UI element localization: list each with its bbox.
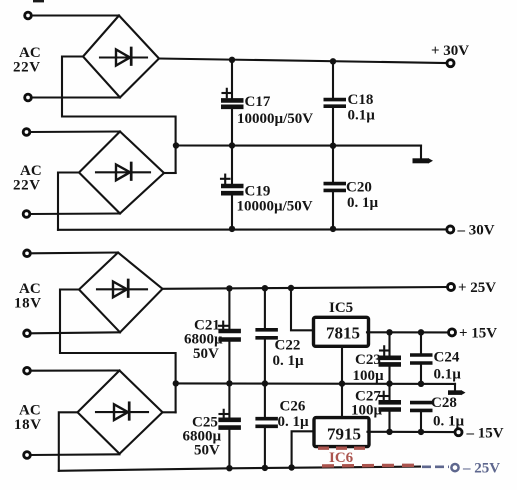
wire B3 minus: left vertex down to junction column xyxy=(60,290,176,413)
junction C18/C20 mid xyxy=(330,143,336,149)
terminal AC2 top xyxy=(23,129,30,136)
terminal +30V xyxy=(447,60,454,67)
svg-text:0. 1µ: 0. 1µ xyxy=(278,414,310,430)
label C17 value xyxy=(237,94,313,127)
label AC 18V (upper winding) xyxy=(14,281,42,312)
terminal -30V xyxy=(447,226,454,233)
terminal AC1 bottom xyxy=(25,94,32,101)
label C24 value xyxy=(434,350,462,383)
junction C19 bottom xyxy=(229,226,235,232)
wire -15V output xyxy=(368,431,455,433)
terminal AC4 bottom xyxy=(24,452,31,459)
wire 0V mid rail (bottom section) xyxy=(176,382,455,385)
diode inside B3 xyxy=(97,280,147,297)
svg-text:0. 1µ: 0. 1µ xyxy=(273,353,305,369)
label C28 value xyxy=(431,395,465,430)
junction 7915 input tap xyxy=(288,464,294,470)
polarity + of C23 xyxy=(380,346,389,354)
blue-gray wire segment to -25V terminal xyxy=(422,465,449,468)
capacitor C25 xyxy=(218,383,241,468)
junction C23 top xyxy=(386,329,392,335)
wire AC4-top to bridge B4 xyxy=(31,369,120,371)
capacitor C26 xyxy=(255,384,278,468)
label C19 value xyxy=(237,184,313,215)
terminal -15V xyxy=(455,429,462,436)
junction IC5 ground xyxy=(339,380,345,386)
capacitor C21 xyxy=(218,288,241,383)
ground (top section) xyxy=(413,146,434,164)
label AC 22V (lower winding) xyxy=(13,163,42,194)
diode inside B2 xyxy=(96,163,150,180)
ground (bottom section) xyxy=(448,384,466,395)
label C25 value xyxy=(183,415,222,459)
node 0V junction (bottom section) xyxy=(173,380,179,386)
scan speck top edge xyxy=(33,0,44,2)
diode inside B1 xyxy=(100,48,147,66)
polarity + of C27 xyxy=(380,392,389,400)
bridge rectifier B3 diamond xyxy=(79,253,163,333)
junction C22 top xyxy=(262,285,268,291)
bridge rectifier B2 diamond xyxy=(79,132,164,214)
svg-text:+ 15V: + 15V xyxy=(459,326,497,342)
svg-text:C24: C24 xyxy=(434,350,460,366)
capacitor C23 xyxy=(379,332,402,383)
svg-text:0.1µ: 0.1µ xyxy=(434,367,462,383)
label AC 18V (lower winding) xyxy=(14,403,42,434)
wire B2 plus to junction column xyxy=(164,172,176,174)
wire B2 minus: left vertex down to -30V rail xyxy=(58,173,79,230)
terminal AC3 bottom xyxy=(24,330,31,337)
label C21 value xyxy=(184,318,223,363)
svg-text:50V: 50V xyxy=(194,443,220,459)
polarity + of C21 xyxy=(219,322,228,330)
wire 7915 input from -25V rail xyxy=(292,431,313,467)
junction C17/C19 mid xyxy=(229,142,235,148)
op-amp IC5 box xyxy=(314,317,369,346)
svg-text:0.1µ: 0.1µ xyxy=(348,108,376,124)
wire IC5 input from +25V rail xyxy=(291,288,312,330)
wire AC3-bottom to bridge B3 xyxy=(31,332,121,333)
diode inside B4 xyxy=(96,403,148,420)
svg-text:18V: 18V xyxy=(14,296,42,312)
wire AC2-bottom to bridge B2 xyxy=(30,212,120,215)
wire B1 minus: left vertex down to junction column xyxy=(62,57,176,174)
capacitor C28 xyxy=(410,403,433,432)
junction C25 bottom xyxy=(226,465,232,471)
wire AC1-top to bridge B1 xyxy=(32,14,120,16)
label C18 value xyxy=(348,92,376,124)
junction C22 bottom xyxy=(262,380,268,386)
op-amp IC6 box xyxy=(314,418,369,447)
terminal +15V xyxy=(449,329,456,336)
junction C27 bottom xyxy=(386,429,392,435)
label C27 value xyxy=(351,389,383,419)
polarity + of C25 xyxy=(220,410,229,418)
wire B4 plus to junction column xyxy=(163,411,176,413)
wire IC5 ground pin xyxy=(341,347,343,384)
svg-text:0. 1µ: 0. 1µ xyxy=(347,195,379,211)
junction IC5 input tap xyxy=(288,285,294,291)
junction C23/C27 xyxy=(386,380,392,386)
terminal AC1 top xyxy=(25,12,32,19)
svg-text:– 25V: – 25V xyxy=(462,461,500,477)
terminal AC4 top xyxy=(24,367,31,374)
bridge rectifier B1 diamond xyxy=(83,16,159,98)
label AC 22V (upper winding) xyxy=(13,45,41,76)
junction C18 top xyxy=(330,58,336,64)
wire +25V rail xyxy=(163,287,448,289)
terminal AC3 top xyxy=(24,250,31,257)
svg-text:IC6: IC6 xyxy=(329,450,354,466)
svg-text:10000µ/50V: 10000µ/50V xyxy=(237,199,313,215)
junction C17 top xyxy=(229,57,235,63)
node 0V junction (top section) xyxy=(173,142,179,148)
svg-text:7815: 7815 xyxy=(326,324,360,343)
capacitor C20 xyxy=(324,146,347,229)
svg-text:100µ: 100µ xyxy=(353,368,385,384)
wire 7915 ground pin xyxy=(341,384,343,418)
capacitor C27 xyxy=(379,384,402,432)
capacitor C24 xyxy=(410,332,433,383)
capacitor C17 xyxy=(221,60,244,146)
red dashed mark under 7915 box xyxy=(318,447,366,450)
svg-text:22V: 22V xyxy=(13,178,41,194)
svg-text:– 30V: – 30V xyxy=(457,223,495,239)
polarity + of C17 xyxy=(223,89,232,97)
label C22 value xyxy=(273,338,305,370)
label C26 value xyxy=(278,399,310,431)
terminal AC2 bottom xyxy=(23,211,30,218)
junction C21 top xyxy=(226,285,232,291)
svg-text:+ 25V: + 25V xyxy=(458,280,496,296)
svg-text:22V: 22V xyxy=(13,60,41,76)
capacitor C18 xyxy=(324,61,347,145)
wire AC4-bottom to bridge B4 xyxy=(31,453,120,456)
svg-text:C17: C17 xyxy=(245,94,271,110)
capacitor C22 xyxy=(255,288,278,383)
wire B4 minus: left vertex down to -25V rail xyxy=(59,412,78,471)
svg-text:0. 1µ: 0. 1µ xyxy=(433,414,465,430)
junction C28 bottom xyxy=(418,429,424,435)
junction C21 bottom xyxy=(226,380,232,386)
label C23 value xyxy=(353,352,385,384)
capacitor C19 xyxy=(221,146,244,229)
wire AC2-top to bridge B2 xyxy=(30,130,120,133)
svg-text:7915: 7915 xyxy=(327,425,361,444)
wire AC3-top to bridge B3 xyxy=(31,251,119,254)
svg-text:– 15V: – 15V xyxy=(466,426,504,442)
wire -25V rail xyxy=(59,467,420,471)
junction C20 bottom xyxy=(330,226,336,232)
svg-text:C28: C28 xyxy=(431,395,457,411)
svg-text:C23: C23 xyxy=(355,352,381,368)
wire bridge B1 bottom to terminal xyxy=(32,96,121,98)
svg-text:+ 30V: + 30V xyxy=(431,43,469,59)
svg-text:18V: 18V xyxy=(14,417,42,433)
terminal +25V xyxy=(448,284,455,291)
wire +15V output xyxy=(367,331,448,333)
svg-text:C20: C20 xyxy=(346,180,372,196)
label C20 value xyxy=(346,180,379,212)
junction C24 top xyxy=(418,329,424,335)
wire 0V mid rail (top section) xyxy=(176,144,421,146)
wire +30V rail xyxy=(159,59,447,64)
svg-text:10000µ/50V: 10000µ/50V xyxy=(237,111,313,127)
terminal -25V (blue-gray) xyxy=(451,464,458,471)
bridge rectifier B4 diamond xyxy=(78,371,163,454)
svg-text:IC5: IC5 xyxy=(329,300,353,316)
svg-text:C26: C26 xyxy=(280,399,306,415)
svg-text:50V: 50V xyxy=(193,346,219,362)
wire -30V rail xyxy=(58,228,447,231)
junction C24/C28 xyxy=(418,381,424,387)
svg-text:C22: C22 xyxy=(275,338,301,354)
red dashed mark over -25V rail xyxy=(322,464,414,468)
svg-text:C18: C18 xyxy=(348,92,374,108)
svg-text:C19: C19 xyxy=(245,184,271,200)
polarity + of C19 xyxy=(221,175,230,183)
junction C26 bottom xyxy=(262,465,268,471)
